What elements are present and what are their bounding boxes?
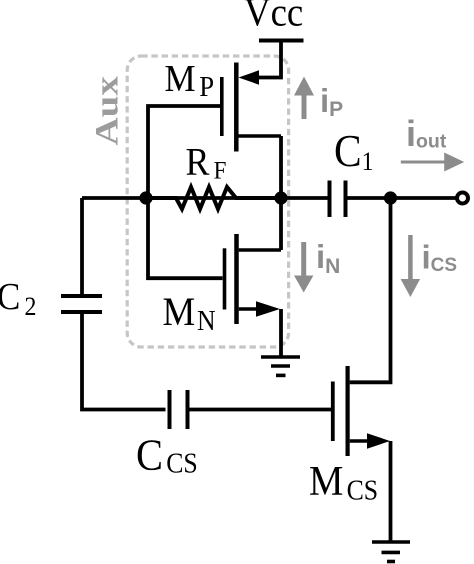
wire node C to output terminal	[391, 196, 457, 200]
current arrow i_N	[294, 242, 313, 293]
transistor M_N	[225, 234, 282, 324]
aux box (dashed enclosure)	[127, 56, 288, 347]
wire left branch node A corner down to C2	[80, 198, 84, 294]
node A (gate node)	[139, 191, 152, 204]
wire C2 down to bottom rail	[82, 314, 166, 410]
wire M_N drain to node B	[279, 198, 283, 250]
capacitor C2	[61, 296, 102, 312]
node B (drain node)	[274, 191, 287, 204]
wire M_N source to ground	[279, 309, 283, 356]
main wire (left corner to C1)	[82, 196, 328, 200]
transistor M_CS	[333, 366, 390, 456]
output terminal (open circle)	[457, 193, 468, 204]
svg-text:Aux: Aux	[88, 76, 125, 145]
wire C_CS to M_CS gate	[190, 408, 332, 412]
wire M_P gate lead	[148, 106, 220, 198]
capacitor C1	[330, 181, 346, 218]
wire M_CS source to ground	[389, 441, 393, 541]
wire M_P drain to node B	[279, 136, 283, 198]
wire Vcc stem to M_P source	[256, 41, 281, 78]
svg-text:Vcc: Vcc	[244, 0, 303, 35]
wire C1 to node C	[348, 196, 391, 200]
ground (below M_N)	[261, 357, 300, 375]
transistor M_P	[222, 63, 281, 152]
wire node C down to M_CS drain	[350, 198, 391, 382]
current arrow i_out	[401, 153, 464, 172]
node C (output node)	[384, 191, 397, 204]
ground (below M_CS)	[372, 542, 410, 562]
resistor R_F	[152, 187, 275, 209]
Vcc supply bar	[259, 39, 304, 43]
wire M_N gate lead	[148, 198, 223, 278]
capacitor C_CS	[170, 390, 188, 429]
current arrow i_P	[294, 77, 314, 120]
current arrow i_CS	[401, 235, 421, 297]
